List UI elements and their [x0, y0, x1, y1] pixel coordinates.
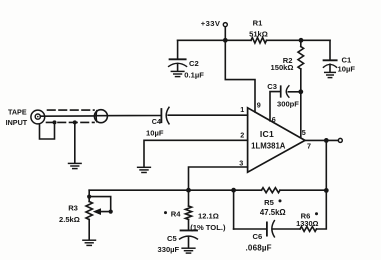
resistor R2 — [300, 40, 302, 46]
wire loop bottom left — [234, 228, 267, 230]
svg-text:C6: C6 — [253, 232, 263, 241]
wire cable to C4 — [95, 115, 161, 117]
capacitor C2 — [170, 58, 186, 60]
svg-text:6: 6 — [272, 115, 276, 124]
wire jack center conductor — [40, 115, 94, 117]
svg-text:IC1: IC1 — [260, 129, 274, 139]
wire jack shield loop — [40, 122, 55, 139]
wire output pin 7 — [305, 139, 338, 141]
wire R3 wiper loop — [89, 197, 111, 212]
cable shield top dashed — [48, 109, 95, 111]
wire C2 drop — [177, 40, 179, 58]
svg-text:+33V: +33V — [201, 19, 221, 28]
wire C1 drop — [329, 40, 331, 59]
svg-text:10µF: 10µF — [146, 128, 164, 137]
wire R2 to C3 node — [300, 69, 302, 92]
wire output to feedback — [325, 140, 327, 190]
wire C4 to pin 1 — [168, 114, 247, 116]
input jack outer — [31, 110, 45, 124]
svg-text:C2: C2 — [189, 59, 199, 68]
ground pin 2 — [138, 166, 151, 168]
+33V supply terminal — [223, 23, 227, 27]
wire pin 2 to ground — [144, 140, 248, 166]
svg-text:150kΩ: 150kΩ — [271, 63, 294, 72]
wire node to pin 5 — [300, 92, 302, 138]
wire shield to ground — [74, 122, 76, 162]
label R4 — [164, 211, 167, 214]
svg-text:9: 9 — [257, 100, 261, 109]
svg-text:5: 5 — [302, 128, 306, 137]
ground under R3 — [83, 239, 96, 241]
wire +33V stem — [224, 27, 226, 41]
svg-text:R4: R4 — [171, 209, 181, 218]
svg-text:330µF: 330µF — [158, 245, 180, 254]
svg-text:7: 7 — [307, 141, 311, 150]
resistor R3 potentiometer — [86, 202, 92, 220]
op-amp IC1 triangle — [248, 108, 305, 172]
wire C3 to node — [288, 91, 301, 93]
ground cable shield — [69, 162, 82, 164]
svg-text:C1: C1 — [342, 55, 352, 64]
wire loop bottom right — [317, 190, 327, 229]
wire rail to R3 — [88, 190, 90, 201]
wire R3 to ground — [88, 220, 90, 240]
node shield ground tap — [73, 120, 77, 124]
node junction loop right — [324, 188, 329, 193]
wire pin 3 — [189, 167, 248, 190]
wire loop left side — [233, 190, 235, 229]
wire feedback rail — [89, 189, 326, 191]
wire pin 6 to C3 — [270, 92, 281, 121]
capacitor C4 — [160, 109, 162, 122]
node junction +33V rail — [223, 38, 228, 43]
svg-text:1: 1 — [240, 105, 244, 114]
cable end shield ellipse — [94, 110, 107, 123]
svg-text:1LM381A: 1LM381A — [251, 141, 286, 150]
capacitor C3 — [280, 86, 282, 97]
wire pin3 node to R4 — [188, 190, 190, 206]
node junction loop left — [231, 188, 236, 193]
svg-text:0.1µF: 0.1µF — [184, 70, 204, 79]
svg-text:1330Ω: 1330Ω — [296, 219, 318, 228]
R3 wiper arrowhead — [93, 208, 101, 215]
capacitor C5 — [181, 229, 197, 231]
capacitor C6 — [266, 222, 268, 235]
svg-text:C3: C3 — [267, 82, 277, 91]
svg-text:R5: R5 — [264, 198, 274, 207]
node junction C3/R2 — [298, 89, 303, 94]
node output junction — [324, 138, 329, 143]
svg-text:2: 2 — [240, 131, 244, 140]
input jack inner — [35, 114, 40, 119]
wire R4 to C5 — [188, 220, 190, 230]
cable shield bottom dashed — [47, 121, 95, 123]
wire supply to pin 9 — [225, 40, 255, 112]
resistor R6 — [300, 227, 317, 232]
svg-text:2.5kΩ: 2.5kΩ — [59, 215, 80, 224]
node junction R1/R2 — [299, 38, 304, 43]
resistor R5 — [262, 188, 281, 193]
node junction R4 — [186, 188, 191, 193]
svg-text:51kΩ: 51kΩ — [249, 30, 268, 39]
svg-text:R3: R3 — [68, 204, 78, 213]
svg-text:12.1Ω: 12.1Ω — [198, 212, 219, 221]
capacitor C1 — [324, 59, 337, 61]
wire top supply rail — [178, 39, 330, 41]
svg-text:C4: C4 — [152, 117, 161, 126]
ground under C5 — [182, 247, 195, 249]
svg-text:INPUT: INPUT — [6, 118, 28, 127]
svg-text:300pF: 300pF — [277, 99, 299, 108]
resistor R4 — [185, 206, 191, 220]
node wiper — [109, 210, 113, 214]
svg-text:(1% TOL.): (1% TOL.) — [190, 223, 226, 232]
resistor R1 — [251, 38, 267, 44]
svg-text:47.5kΩ: 47.5kΩ — [260, 208, 286, 217]
svg-text:3: 3 — [239, 158, 243, 167]
node R3 top — [87, 195, 91, 199]
svg-text:C5: C5 — [167, 234, 177, 243]
svg-text:TAPE: TAPE — [8, 108, 27, 117]
svg-text:10µF: 10µF — [338, 65, 356, 74]
output terminal — [338, 138, 342, 142]
node shield tie — [53, 120, 57, 124]
wire loop bottom mid — [273, 228, 300, 230]
ground under C1 — [325, 71, 336, 73]
ground under C2 — [171, 70, 184, 72]
svg-text:R1: R1 — [253, 19, 263, 28]
svg-text:.068µF: .068µF — [246, 243, 272, 252]
